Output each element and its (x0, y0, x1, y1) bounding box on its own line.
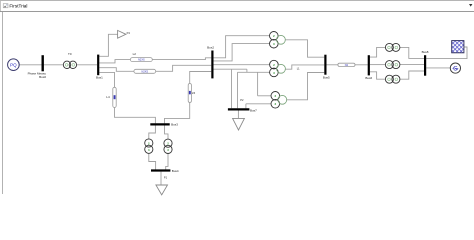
svg-text:Bus3: Bus3 (171, 122, 178, 126)
svg-text:P1: P1 (164, 176, 168, 180)
svg-text:Bus1: Bus1 (96, 76, 103, 80)
svg-text:3: 3 (274, 102, 276, 106)
svg-text:3: 3 (148, 148, 150, 152)
svg-text:Bus8: Bus8 (422, 50, 429, 54)
svg-text:Bus2: Bus2 (207, 46, 214, 50)
svg-text:L2: L2 (133, 52, 137, 56)
svg-text:L5: L5 (192, 91, 196, 95)
svg-text:FirstTrial: FirstTrial (9, 4, 27, 9)
svg-text:N2XS: N2XS (142, 70, 149, 73)
svg-text:3: 3 (167, 148, 169, 152)
svg-text:2: 2 (273, 63, 275, 67)
svg-text:Bus6: Bus6 (365, 76, 372, 80)
svg-text:3: 3 (273, 71, 275, 75)
svg-text:Bus4: Bus4 (172, 169, 179, 173)
svg-text:P4: P4 (127, 31, 131, 35)
svg-text:L4: L4 (106, 95, 110, 99)
svg-text:Bus7: Bus7 (250, 108, 257, 112)
svg-text:2: 2 (167, 142, 169, 146)
svg-text:Bus5: Bus5 (323, 75, 330, 79)
svg-text:2: 2 (148, 141, 150, 145)
svg-text:P2: P2 (240, 98, 244, 102)
svg-text:2: 2 (274, 94, 276, 98)
svg-text:T0: T0 (68, 52, 72, 56)
svg-text:L1: L1 (297, 67, 300, 71)
svg-text:3: 3 (273, 42, 275, 46)
svg-text:N2XS: N2XS (138, 59, 145, 62)
svg-text:2: 2 (273, 34, 275, 38)
svg-text:PQ: PQ (10, 62, 17, 67)
svg-text:Bus0: Bus0 (39, 75, 46, 79)
